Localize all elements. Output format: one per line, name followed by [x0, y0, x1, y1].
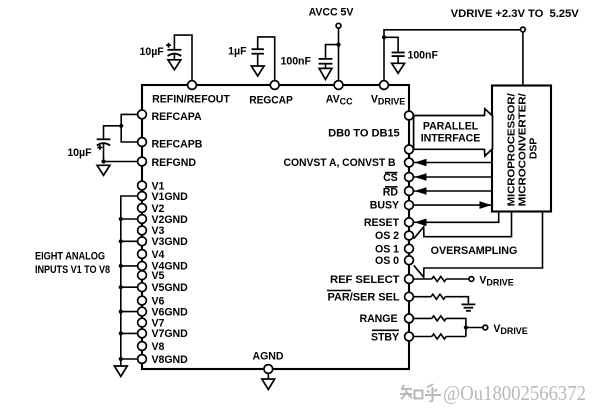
junction dot V6GND [119, 310, 123, 314]
pin V8GND [138, 355, 147, 364]
pin label V6 [152, 295, 165, 307]
ground below C4 [392, 63, 405, 73]
oversampling bus bottom edge [414, 212, 543, 278]
pin V7GND [138, 329, 147, 338]
pin V3 [138, 226, 147, 235]
pin label V5GND [152, 282, 189, 294]
wire PAR/SER SEL [414, 296, 431, 298]
pin RANGE [405, 314, 414, 323]
wire to C5 [104, 126, 122, 139]
svg-text:PARALLEL: PARALLEL [423, 120, 479, 132]
pin label V2GND [152, 214, 189, 226]
wire R1 to terminal [446, 278, 469, 280]
svg-text:OS 1: OS 1 [375, 243, 399, 255]
wire R3 to junction [446, 318, 466, 336]
svg-text:100nF: 100nF [281, 56, 312, 68]
terminal VDRIVE ref select [469, 274, 514, 287]
capacitor C5 10uF polarized [97, 139, 111, 161]
svg-text:RESET: RESET [364, 217, 400, 229]
pin OS0 [405, 256, 414, 265]
svg-text:BUSY: BUSY [370, 200, 399, 212]
pin label V1GND [152, 191, 189, 203]
svg-text:STBY: STBY [371, 331, 399, 343]
pin label V4 [152, 249, 165, 261]
pin label OS 2 [375, 230, 399, 242]
svg-text:OS 0: OS 0 [375, 255, 399, 267]
microprocessor box U2 [492, 86, 551, 212]
pin label PAR/SER SEL [327, 291, 400, 304]
watermark [400, 381, 586, 405]
pin label VDRIVE [371, 94, 405, 107]
svg-text:V8GND: V8GND [152, 354, 189, 366]
svg-text:V3GND: V3GND [152, 236, 189, 248]
svg-text:CONVST A, CONVST B: CONVST A, CONVST B [284, 157, 396, 169]
pin label REF SELECT [330, 274, 400, 286]
pin PAR/SER SEL [405, 292, 414, 301]
pin RD [405, 187, 414, 196]
wire to C3 [326, 45, 339, 59]
pin CS [405, 173, 414, 182]
terminal VDRIVE range/stby [483, 323, 528, 336]
ADC chip body outline [142, 85, 409, 369]
svg-text:REFGND: REFGND [152, 157, 197, 169]
label OVERSAMPLING [431, 245, 518, 257]
pin V5 [138, 271, 147, 280]
wire REGCAP to C2 [258, 37, 275, 85]
pin V8 [138, 342, 147, 351]
svg-text:V5GND: V5GND [152, 282, 189, 294]
junction dot V3GND [119, 239, 123, 243]
pin label V6GND [152, 306, 189, 318]
pin label RD [383, 187, 399, 199]
pin V1GND [138, 192, 147, 201]
resistor R1 [432, 277, 446, 282]
svg-text:V1GND: V1GND [152, 191, 189, 203]
pin label CONVST A, CONVST B [284, 157, 396, 169]
pin V4 [138, 250, 147, 259]
pin label V3GND [152, 236, 189, 248]
svg-text:INTERFACE: INTERFACE [421, 132, 481, 144]
svg-text:REFCAPB: REFCAPB [152, 139, 203, 151]
svg-text:100nF: 100nF [408, 50, 439, 62]
pin REFCAPA [138, 110, 147, 119]
pin STBY [405, 332, 414, 341]
svg-text:PAR/SER SEL: PAR/SER SEL [328, 292, 401, 304]
ground below VGND bus [114, 366, 127, 377]
svg-text:10µF: 10µF [140, 46, 165, 58]
pin label V2 [152, 203, 165, 215]
pin label OS 0 [375, 255, 399, 267]
junction dot refgnd [101, 159, 105, 163]
pin REFIN/REFOUT [188, 81, 197, 90]
wire RANGE [414, 317, 432, 319]
ground below C2 [251, 66, 264, 76]
pin V5GND [138, 283, 147, 292]
wire RD arrow [414, 187, 492, 195]
wire CONVST arrow [414, 159, 492, 167]
svg-text:REFCAPA: REFCAPA [152, 111, 202, 123]
ground below C1 [168, 60, 181, 70]
svg-text:V4: V4 [152, 249, 165, 261]
junction dot V5GND [119, 285, 123, 289]
pin label DB0 TO DB15 [328, 127, 400, 139]
pin label REFGND [152, 157, 197, 169]
pin OS2 [405, 231, 414, 240]
pin BUSY [405, 201, 414, 210]
pin label V8 [152, 341, 165, 353]
svg-text:RD: RD [383, 187, 399, 199]
pin REF SELECT [405, 275, 414, 284]
svg-text:INPUTS V1 TO V8: INPUTS V1 TO V8 [35, 264, 110, 276]
junction dot V2GND [119, 217, 123, 221]
VGND stub V6GND [121, 311, 142, 313]
VGND stub V7GND [121, 332, 142, 334]
pin OS1 [405, 244, 414, 253]
pin DB15 [405, 145, 414, 154]
pin label AVCC [326, 94, 353, 107]
resistor R3 [432, 316, 446, 321]
label C1 10uF [140, 46, 165, 58]
wire REF SELECT [414, 278, 432, 280]
REFCAPA/REFCAPB external loop wire [121, 114, 142, 142]
pin RESET [405, 218, 414, 227]
wire R2 to earth [445, 297, 468, 304]
pin V1 [138, 181, 147, 190]
pin V7 [138, 318, 147, 327]
wire REFIN/REFOUT to C1 [174, 35, 192, 85]
svg-text:REF SELECT: REF SELECT [330, 274, 400, 286]
capacitor C2 1uF [252, 49, 264, 66]
capacitor C1 10uF polarized [166, 43, 181, 60]
wire VDRIVE pin up and right to terminal [384, 30, 521, 85]
pin REGCAP [270, 81, 279, 90]
pin label V1 [152, 180, 165, 192]
svg-text:V2GND: V2GND [152, 214, 189, 226]
pin label STBY [371, 330, 399, 343]
wire R4 to junction [446, 336, 466, 338]
pin VDRIVE [380, 81, 389, 90]
pin label V3 [152, 225, 165, 237]
pin label RANGE [359, 313, 397, 325]
VGND stub V8GND [121, 358, 142, 360]
VGND stub V4GND [121, 265, 142, 267]
wire CS arrow [414, 173, 492, 181]
junction dot V7GND [119, 331, 123, 335]
wire to C4 [384, 37, 398, 52]
pin V2 [138, 204, 147, 213]
ground below refgnd [97, 165, 110, 175]
VDRIVE supply rail [451, 8, 579, 20]
svg-text:VDRIVE +2.3V TO 5.25V: VDRIVE +2.3V TO 5.25V [451, 8, 579, 20]
pin V3GND [138, 237, 147, 246]
svg-text:REGCAP: REGCAP [249, 94, 293, 106]
pin label REFCAPB [152, 139, 203, 151]
label C4 100nF [408, 50, 439, 62]
svg-text:V7GND: V7GND [152, 328, 189, 340]
junction dot range/stby [464, 325, 468, 329]
pin label CS [383, 172, 398, 184]
VGND stub V5GND [121, 286, 142, 288]
parallel interface bus arrow [414, 109, 493, 156]
pin label REFIN/REFOUT [152, 94, 230, 106]
svg-text:OS 2: OS 2 [375, 230, 399, 242]
svg-text:V8: V8 [152, 341, 165, 353]
VGND stub V2GND [121, 218, 142, 220]
pin REFGND [138, 157, 147, 166]
wire BUSY arrow [414, 201, 492, 209]
analog inputs annotation [35, 251, 110, 277]
pin V2GND [138, 215, 147, 224]
resistor R4 [432, 334, 446, 339]
junction dot VDRIVE [382, 35, 386, 39]
AGND pin wire and ground [253, 350, 284, 389]
svg-text:EIGHT ANALOG: EIGHT ANALOG [35, 251, 105, 263]
earth ground PAR/SER SEL [462, 304, 476, 310]
svg-text:DB0 TO DB15: DB0 TO DB15 [328, 127, 400, 139]
pin label BUSY [370, 200, 399, 212]
pin REFCAPB [138, 138, 147, 147]
svg-text:CS: CS [383, 172, 398, 184]
junction dot V4GND [119, 264, 123, 268]
wire STBY [414, 336, 432, 338]
pin label V5 [152, 270, 165, 282]
svg-text:10µF: 10µF [67, 147, 92, 159]
resistor R2 [431, 294, 445, 299]
label C2 1uF [228, 46, 247, 58]
pin label V8GND [152, 354, 189, 366]
wire RESET arrow [414, 212, 499, 227]
VGND bus wire [121, 196, 142, 366]
terminal VDRIVE top [521, 27, 526, 32]
pin V6GND [138, 307, 147, 316]
junction dot refcap [119, 124, 123, 128]
label C5 10uF [67, 147, 92, 159]
wire terminal down to microprocessor box [522, 32, 524, 86]
ground below C3 [319, 68, 332, 79]
svg-text:1µF: 1µF [228, 46, 247, 58]
svg-text:OVERSAMPLING: OVERSAMPLING [431, 245, 518, 257]
pin AGND [264, 365, 273, 374]
pin AVCC [334, 81, 343, 90]
junction dot V8GND [119, 357, 123, 361]
wire junction to terminal [466, 327, 483, 329]
pin label REGCAP [249, 94, 293, 106]
pin label V7 [152, 317, 165, 329]
junction dot AVCC [336, 43, 340, 47]
pin label V7GND [152, 328, 189, 340]
oversampling bus top edge [414, 212, 512, 239]
svg-text:RANGE: RANGE [359, 313, 397, 325]
pin V6 [138, 296, 147, 305]
svg-text:@Ou18002566372: @Ou18002566372 [443, 381, 586, 405]
svg-text:AGND: AGND [253, 350, 284, 362]
svg-text:V5: V5 [152, 270, 165, 282]
svg-text:REFIN/REFOUT: REFIN/REFOUT [152, 94, 230, 106]
pin DB0 [405, 111, 414, 120]
pin V4GND [138, 262, 147, 271]
capacitor C4 100nF [392, 53, 405, 64]
pin label OS 1 [375, 243, 399, 255]
wire AVCC terminal to AVCC pin [338, 28, 340, 85]
AVCC supply terminal [309, 7, 354, 28]
wire REFGND to ground [104, 161, 143, 163]
svg-text:AVCC 5V: AVCC 5V [309, 7, 354, 19]
pin label V4GND [152, 261, 189, 273]
VGND stub V3GND [121, 240, 142, 242]
pin label REFCAPA [152, 111, 202, 123]
capacitor C3 100nF [319, 59, 333, 69]
pin CONVST [405, 158, 414, 167]
pin label RESET [364, 217, 400, 229]
label C3 100nF [281, 56, 312, 68]
